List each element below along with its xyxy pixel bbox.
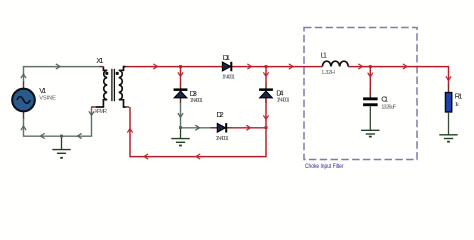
svg-text:1N4001: 1N4001 [277,98,290,104]
svg-text:D1: D1 [223,53,230,62]
svg-text:R1: R1 [455,92,463,101]
svg-text:VSINE: VSINE [39,95,56,101]
svg-text:L1: L1 [321,51,327,60]
svg-text:1N4001: 1N4001 [222,75,235,81]
svg-text:1N4001: 1N4001 [190,98,203,104]
svg-text:X1: X1 [96,56,103,65]
svg-text:XFMR: XFMR [94,109,107,115]
svg-text:V1: V1 [39,86,46,95]
svg-text:1.32H: 1.32H [321,70,335,76]
svg-text:13.26uF: 13.26uF [381,104,397,110]
svg-text:Choke Input Filter: Choke Input Filter [305,163,344,170]
svg-text:C1: C1 [381,95,388,104]
svg-text:1k: 1k [455,102,459,108]
svg-text:D2: D2 [216,110,223,119]
svg-text:D3: D3 [190,89,197,98]
svg-text:1N4001: 1N4001 [216,136,229,142]
svg-text:D4: D4 [276,88,283,97]
